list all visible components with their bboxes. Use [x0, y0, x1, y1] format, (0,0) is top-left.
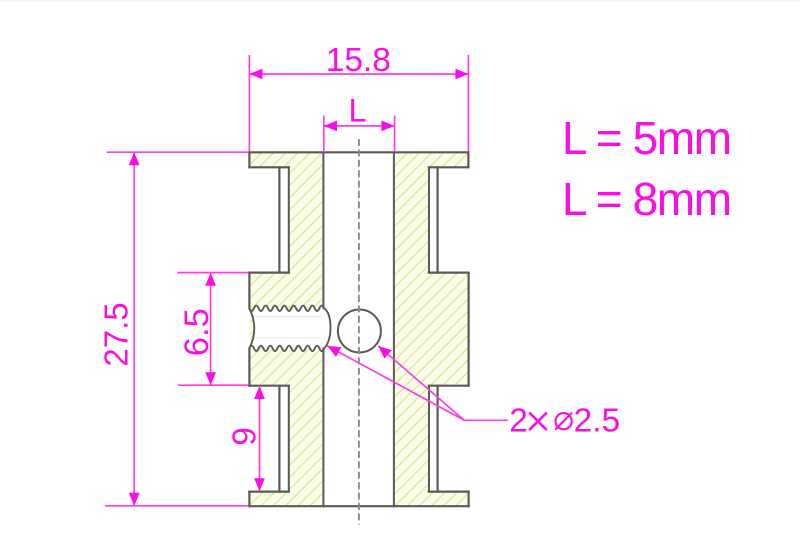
svg-text:27.5: 27.5: [97, 302, 134, 366]
svg-text:15.8: 15.8: [326, 42, 391, 79]
svg-text:9: 9: [227, 427, 264, 446]
svg-text:6.5: 6.5: [178, 308, 216, 356]
svg-text:2.5: 2.5: [574, 402, 621, 439]
svg-text:L: L: [349, 92, 367, 128]
svg-text:2: 2: [509, 402, 528, 439]
svg-text:L = 5mm: L = 5mm: [562, 112, 731, 164]
svg-text:L = 8mm: L = 8mm: [562, 173, 731, 225]
